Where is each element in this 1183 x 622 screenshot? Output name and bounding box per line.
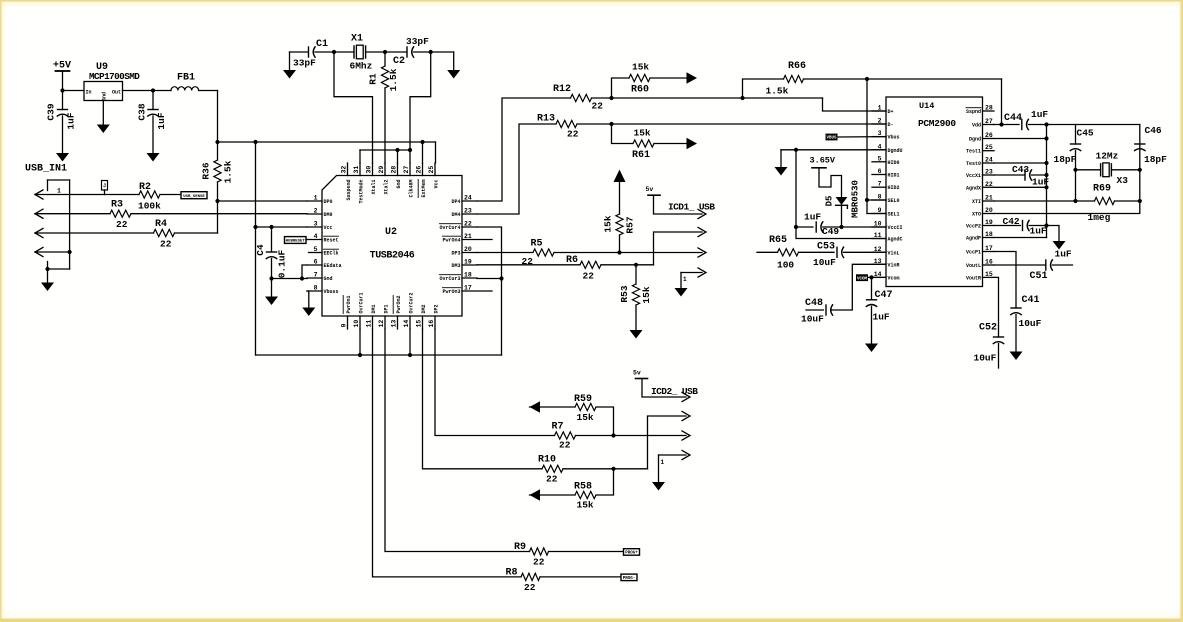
svg-text:DM4: DM4 [451,212,460,218]
svg-text:12Mz: 12Mz [1096,151,1119,162]
U2 pin 28 Gnd [397,163,399,176]
wire DP0 [218,200,308,202]
U14 pin 7 HID2 [872,186,886,188]
U14 pin 5 HID0 [872,161,886,163]
wire DP3 row / R5 [533,249,554,256]
svg-text:23: 23 [464,208,472,215]
U2 pin 7 Gnd [307,277,322,279]
U2 pin 31 TestMode [359,163,361,176]
ground [102,101,104,125]
svg-text:R69: R69 [1093,184,1111,195]
svg-text:AgndP: AgndP [966,236,981,242]
svg-text:15k: 15k [634,128,651,139]
svg-text:R61: R61 [632,150,650,161]
open arrow [698,248,706,257]
U2 pin 6 EEdata [307,264,322,266]
node [865,198,869,202]
pin wire [659,454,687,456]
svg-text:DP2: DP2 [434,304,440,313]
wire to U2 pin 25 [435,142,437,163]
wire XTI row [994,200,1076,202]
svg-text:1.5k: 1.5k [388,68,399,91]
svg-text:Dgnd: Dgnd [969,137,981,143]
svg-text:25: 25 [985,144,993,151]
ground [652,482,665,491]
wire Vbus to gnd [307,291,309,308]
svg-text:TUSB2046: TUSB2046 [370,251,415,262]
svg-text:15k: 15k [603,215,614,232]
ground [675,288,688,297]
resistor R12 22 [571,94,592,101]
svg-text:R59: R59 [574,394,592,405]
svg-text:14: 14 [403,320,410,328]
svg-text:1uF: 1uF [156,112,167,129]
svg-text:DM3: DM3 [451,263,460,269]
svg-text:SEL0: SEL0 [888,198,900,204]
off-page arrow [687,72,698,84]
U14 pin 16 VoutL [983,264,995,266]
svg-text:12: 12 [378,320,385,328]
svg-text:R57: R57 [625,216,636,233]
U2 pin 22 OvrCur4 [462,226,477,228]
net label VCOM [856,274,868,281]
svg-text:VccP2: VccP2 [966,224,981,230]
wire 3.3V [199,90,218,92]
svg-text:VCOM: VCOM [857,277,868,281]
svg-text:C2: C2 [393,56,405,67]
svg-text:XTO: XTO [972,212,981,218]
wire SEL riser [866,79,868,214]
wire C2 to gnd rail [410,52,431,150]
svg-text:+5V: +5V [53,61,71,72]
svg-text:9: 9 [878,207,882,214]
svg-text:5: 5 [878,155,882,162]
svg-text:10uF: 10uF [1019,318,1042,329]
svg-text:R2: R2 [139,182,151,193]
svg-text:Vcc: Vcc [324,225,333,231]
wire pin18 OvrCur3 [477,278,502,280]
svg-text:17: 17 [985,245,993,252]
svg-text:3: 3 [314,221,318,228]
node [215,199,219,203]
svg-text:28: 28 [391,166,398,174]
svg-text:R5: R5 [531,239,543,250]
resistor R57 15k pull-up [614,170,626,183]
svg-text:AgndX: AgndX [966,185,981,191]
node [611,467,615,471]
svg-text:R66: R66 [788,61,806,72]
svg-text:15k: 15k [632,62,649,73]
net label VBUS [826,134,838,141]
wire Vcc bottom rail [255,142,257,355]
resistor R9 22 [530,548,549,555]
U2 pin 2 DM0 [307,213,322,215]
resistor R3 22 [110,210,131,217]
svg-text:24: 24 [464,195,472,202]
node [839,225,843,229]
U14 pin 14 Vcom [872,276,886,278]
open arrow [682,431,690,440]
svg-text:8: 8 [878,194,882,201]
U2 pin 25 Vcc [434,163,436,176]
wire [63,90,85,92]
resistor R2 100k [139,191,160,198]
svg-text:R7: R7 [552,422,564,433]
svg-text:20: 20 [985,207,993,214]
svg-text:1: 1 [878,105,882,112]
resistor R65 100 / VinL [757,251,778,253]
wire [123,90,172,92]
capacitor C41 10uF / VccP1 [994,252,1016,309]
U14 pin 9 SEL1 [872,213,886,215]
wire DP1 [385,329,530,552]
svg-text:1.5k: 1.5k [223,160,234,183]
svg-text:OvrCur3: OvrCur3 [439,276,460,282]
svg-text:7: 7 [314,272,318,279]
svg-text:R12: R12 [553,84,571,95]
svg-text:HID2: HID2 [888,185,900,191]
svg-text:22: 22 [559,440,571,451]
svg-text:Gnd: Gnd [102,92,108,101]
svg-text:24: 24 [985,157,993,164]
U14 pin 11 AgndC [872,238,886,240]
svg-text:X1: X1 [351,34,363,45]
wire Vcc row [256,226,308,228]
wire DM2 [423,329,543,469]
U2 pin 24 DP4 [462,200,477,202]
svg-text:VinL: VinL [888,250,900,256]
wire Gnd row [272,278,308,280]
svg-text:HUBRESET: HUBRESET [286,240,306,244]
wire to gnd [1047,226,1060,242]
wire XTO row [994,125,1140,214]
svg-text:C49: C49 [822,226,839,237]
svg-text:Vcom: Vcom [888,275,900,281]
capacitor C39 [62,91,64,110]
svg-text:1uF: 1uF [1030,226,1047,237]
U14 pin 1 D+ [872,110,886,112]
U2 pin 5 EEClk [309,252,323,254]
svg-text:1: 1 [683,276,687,283]
svg-text:2: 2 [878,118,882,125]
U2 pin 10 OvrCur1 [359,316,361,329]
svg-text:C42: C42 [1003,216,1020,227]
svg-text:15k: 15k [641,286,652,303]
U2 pin 23 DM4 [462,213,477,215]
diode D5 MBR0530 [836,197,848,205]
node [794,148,798,152]
capacitor C42 1uF / VccP2 [994,225,1020,227]
U2 pin 27 Clk48M [409,163,411,176]
pin wire [35,232,154,234]
U2 pin 8 Vbuss [307,290,322,292]
svg-text:100: 100 [777,260,794,271]
capacitor C47 1uF [871,277,873,299]
svg-text:32: 32 [341,166,348,174]
pin wire [35,251,70,253]
svg-text:0.1uF: 0.1uF [277,249,288,278]
U2 pin 32 Suspend [347,163,349,176]
wire Dgnd [994,138,1047,140]
node [420,140,424,144]
ground [302,308,315,317]
svg-text:HID0: HID0 [888,160,900,166]
wire Xtal2 [384,88,386,163]
svg-text:22: 22 [116,219,128,230]
U14 pin 23 VccX1 [983,174,995,176]
node [215,140,219,144]
node [253,225,257,229]
capacitor C53 10uF [836,247,838,257]
svg-text:DM0: DM0 [324,212,333,218]
svg-text:26: 26 [985,132,993,139]
node [999,122,1003,126]
svg-text:OvrCur4: OvrCur4 [439,225,460,231]
U14 pin 2 D- [872,123,886,125]
svg-text:Out: Out [112,90,121,96]
wire EEdata to Gnd [302,265,307,279]
capacitor C45 18pF [1075,125,1077,145]
svg-text:1uF: 1uF [1031,109,1048,120]
pin wire [35,213,110,215]
svg-text:1: 1 [661,459,665,466]
svg-text:Clk48M: Clk48M [409,180,415,198]
net label USB_SENSE [181,192,207,199]
resistor R4 22 [154,229,175,236]
hub U2 TUSB2046 [322,176,462,317]
svg-text:PROG+: PROG+ [625,552,638,556]
svg-text:Vcc: Vcc [434,180,440,189]
svg-text:29: 29 [378,166,385,174]
ground [56,153,69,162]
U14 pin 22 AgndX [983,186,995,188]
wire Sspnd pull / R66 rail corner [1001,79,1003,125]
svg-text:VccCI: VccCI [888,225,903,231]
svg-text:17: 17 [464,285,472,292]
node 5V rail junction [60,88,64,92]
svg-text:11: 11 [366,320,373,328]
svg-text:C38: C38 [137,103,148,120]
svg-text:R9: R9 [514,542,526,553]
svg-text:C46: C46 [1145,125,1162,136]
svg-text:VoutL: VoutL [966,263,981,269]
svg-text:USB_IN1: USB_IN1 [25,164,67,175]
node [869,275,873,279]
U14 pin 26 Dgnd [983,138,995,140]
node [383,50,387,54]
svg-text:18: 18 [464,272,472,279]
svg-text:SEL1: SEL1 [888,212,900,218]
U2 pin 11 DM1 [372,316,374,329]
svg-text:33pF: 33pF [293,58,316,69]
svg-text:R13: R13 [537,114,555,125]
svg-text:OvrCur1: OvrCur1 [359,292,365,313]
svg-text:30: 30 [366,166,373,174]
wire OvrCur1 [359,329,361,355]
svg-text:R53: R53 [619,285,630,302]
svg-text:1uF: 1uF [1055,249,1072,260]
node [609,96,613,100]
resistor R7 22 [555,432,576,439]
svg-text:6Mhz: 6Mhz [350,61,373,72]
svg-text:PwrOn1: PwrOn1 [346,295,352,313]
svg-text:22: 22 [524,582,536,593]
resistor R36 1.5k [214,160,221,182]
svg-text:Xtal1: Xtal1 [371,180,377,195]
svg-text:22: 22 [160,239,172,250]
U2 pin 19 DM3 [462,264,477,266]
svg-text:PwrOn4: PwrOn4 [442,238,460,244]
svg-text:28: 28 [985,105,993,112]
svg-text:EEdata: EEdata [324,263,342,269]
node [1044,136,1048,140]
svg-text:16: 16 [985,259,993,266]
wire analog gnd rail [1046,125,1048,238]
node [740,96,744,100]
svg-text:DP4: DP4 [451,199,460,205]
U2 pin 15 DM2 [422,316,424,329]
svg-text:1uF: 1uF [804,212,821,223]
svg-text:R10: R10 [538,455,556,466]
wire Xtal1 [334,52,373,163]
svg-text:R4: R4 [155,219,167,230]
crystal X3 12Mz [1076,169,1101,171]
svg-text:DP0: DP0 [324,199,333,205]
svg-text:C45: C45 [1077,128,1094,139]
node [408,353,412,357]
node [151,88,155,92]
svg-text:C41: C41 [1022,295,1040,306]
resistor R69 1meg [1076,200,1095,202]
svg-text:C48: C48 [805,298,823,309]
U14 pin 19 VccP2 [983,225,995,227]
svg-text:PROG-: PROG- [623,577,636,581]
ground [1053,241,1066,250]
svg-text:C52: C52 [979,323,997,334]
svg-text:DgndU: DgndU [888,148,903,154]
wire [290,51,308,53]
node [499,276,503,280]
capacitor C51 / VoutL [994,264,1046,266]
svg-text:16: 16 [428,320,435,328]
node [300,276,304,280]
svg-text:C43: C43 [1012,164,1029,175]
svg-text:TestMode: TestMode [359,180,365,204]
svg-text:1.5k: 1.5k [766,86,789,97]
wire AgndX [994,186,1047,188]
wire shield [48,268,70,270]
svg-text:33pF: 33pF [406,36,429,47]
svg-text:VoutR: VoutR [966,275,981,281]
resistor R1 1.5k [384,52,386,66]
U14 pin 21 XTI [983,200,995,202]
svg-text:2: 2 [314,208,318,215]
U14 pin 27 Vdd [983,124,995,126]
svg-text:PCM2900: PCM2900 [918,118,956,129]
ground [780,150,782,167]
wire Test0 [994,162,1047,164]
svg-text:27: 27 [985,118,993,125]
svg-text:X3: X3 [1117,175,1129,186]
U14 pin 13 VinR [872,263,886,265]
wire DP2 [435,329,555,436]
U14 pin 4 DgndU [872,149,886,151]
svg-text:18pF: 18pF [1054,154,1077,165]
U14 pin 24 Test0 [983,162,995,164]
U14 pin 10 VccCI [872,226,886,228]
svg-text:R8: R8 [506,568,518,579]
svg-text:VccX1: VccX1 [966,173,981,179]
svg-text:VinR: VinR [888,262,900,268]
svg-text:31: 31 [353,166,360,174]
U2 pin 21 PwrOn4 [462,239,492,241]
svg-text:Reset: Reset [324,238,339,244]
svg-text:C4: C4 [255,244,266,256]
wire SEL0 [867,199,886,201]
node [1044,122,1048,126]
U14 pin 12 VinL [872,251,886,253]
svg-text:22: 22 [985,181,993,188]
net label HUBRESET [285,237,307,244]
node [617,250,621,254]
resistor R60 15k [612,78,630,98]
svg-text:7: 7 [878,181,882,188]
wire SEL1 [867,213,886,215]
svg-text:R65: R65 [769,235,787,246]
svg-text:MCP1700SMD: MCP1700SMD [89,71,140,82]
svg-text:19: 19 [464,259,472,266]
resistor R66 1.5k [743,79,784,98]
svg-text:OvrCur2: OvrCur2 [409,292,415,313]
wire DgndU [781,149,886,151]
capacitor C4 0.1uF [271,227,273,252]
svg-text:10uF: 10uF [813,257,836,268]
node [269,225,273,229]
svg-text:15: 15 [985,271,993,278]
ground [147,153,160,162]
svg-text:5v: 5v [646,186,654,193]
node [1044,173,1048,177]
svg-text:Vbuss: Vbuss [324,289,339,295]
U2 pin 9 PwrOn1 [347,316,349,329]
svg-text:Gnd: Gnd [396,180,402,189]
svg-text:27: 27 [403,166,410,174]
svg-text:4: 4 [314,233,318,240]
svg-text:D5: D5 [825,196,835,207]
voltage regulator U9 MCP1700SMD [84,82,123,101]
svg-text:FB1: FB1 [177,73,195,84]
svg-text:VBUS: VBUS [826,137,837,141]
wire DP4 riser [477,98,571,201]
svg-text:15: 15 [416,320,423,328]
wire AgndP [994,237,1047,239]
U14 pin 17 VccP1 [983,251,995,253]
wire VinR / capacitor C48 10uF [831,264,886,310]
codec U14 PCM2900 [886,97,983,287]
node [358,353,362,357]
wire to U2 pin 26 [422,142,424,163]
svg-text:R60: R60 [631,85,649,96]
svg-text:22: 22 [592,101,604,112]
svg-text:23: 23 [985,169,993,176]
svg-text:18: 18 [985,231,993,238]
svg-text:10: 10 [353,320,360,328]
svg-text:ICD1_ USB: ICD1_ USB [668,202,715,213]
svg-text:C44: C44 [1004,113,1022,124]
svg-text:Vdd: Vdd [972,123,981,129]
svg-text:1uF: 1uF [873,312,890,323]
U2 pin 12 DP1 [384,316,386,329]
